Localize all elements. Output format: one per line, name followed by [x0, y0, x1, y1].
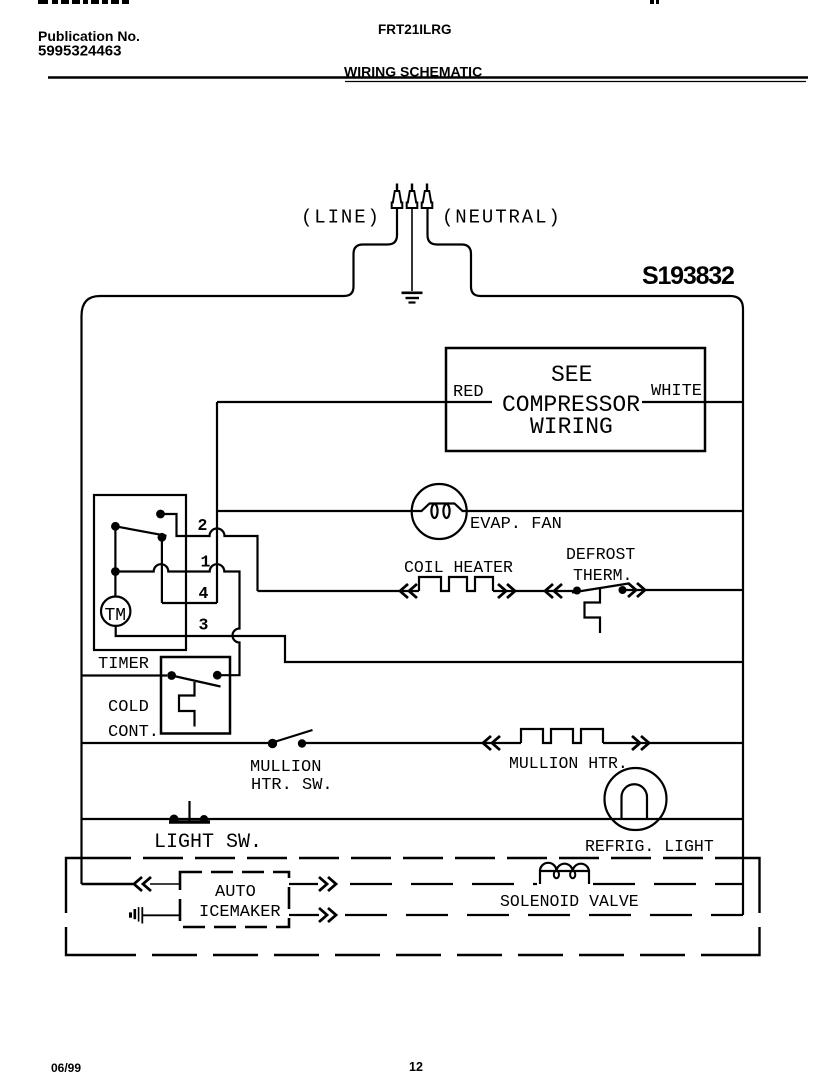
svg-text:SEE: SEE — [551, 362, 592, 388]
svg-text:RED: RED — [453, 383, 484, 402]
svg-text:WHITE: WHITE — [651, 382, 702, 401]
svg-text:3: 3 — [199, 616, 209, 635]
svg-text:TM: TM — [105, 606, 127, 626]
svg-text:06/99: 06/99 — [51, 1061, 81, 1075]
svg-text:DEFROST: DEFROST — [566, 545, 635, 564]
svg-text:MULLION HTR.: MULLION HTR. — [509, 754, 628, 773]
svg-text:TIMER: TIMER — [98, 655, 149, 674]
svg-text:FRT21ILRG: FRT21ILRG — [378, 22, 452, 37]
svg-text:12: 12 — [409, 1060, 423, 1074]
svg-text:THERM.: THERM. — [573, 566, 632, 585]
svg-text:WIRING: WIRING — [530, 414, 613, 440]
svg-text:1: 1 — [201, 553, 211, 572]
svg-text:CONT.: CONT. — [108, 723, 159, 742]
svg-text:(LINE): (LINE) — [301, 207, 381, 229]
svg-text:WIRING SCHEMATIC: WIRING SCHEMATIC — [344, 64, 482, 80]
svg-text:EVAP. FAN: EVAP. FAN — [470, 515, 562, 534]
svg-text:S193832: S193832 — [642, 262, 734, 290]
svg-text:LIGHT SW.: LIGHT SW. — [154, 831, 262, 854]
svg-text:REFRIG. LIGHT: REFRIG. LIGHT — [585, 837, 714, 856]
svg-text:(NEUTRAL): (NEUTRAL) — [442, 207, 562, 229]
svg-text:COIL HEATER: COIL HEATER — [404, 558, 513, 577]
svg-text:AUTO: AUTO — [215, 883, 256, 902]
svg-text:MULLION: MULLION — [250, 758, 321, 777]
svg-text:SOLENOID VALVE: SOLENOID VALVE — [500, 892, 639, 911]
svg-text:4: 4 — [199, 584, 209, 603]
svg-text:2: 2 — [198, 516, 208, 535]
svg-text:ICEMAKER: ICEMAKER — [199, 903, 281, 922]
svg-text:COLD: COLD — [108, 698, 149, 717]
svg-text:HTR. SW.: HTR. SW. — [251, 776, 333, 795]
svg-text:5995324463: 5995324463 — [38, 43, 121, 60]
